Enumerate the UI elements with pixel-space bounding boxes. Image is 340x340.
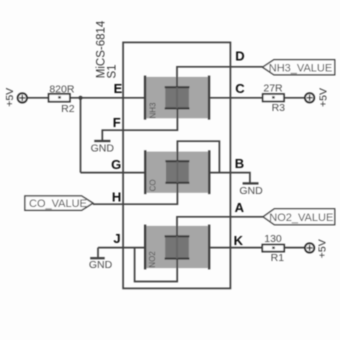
wire pin G to sensor CO left — [81, 172, 145, 174]
svg-text:NH3_VALUE: NH3_VALUE — [269, 62, 332, 74]
power +5V (right bottom) — [305, 239, 329, 258]
svg-text:K: K — [234, 233, 244, 248]
svg-text:H: H — [112, 190, 121, 205]
wire R3 to +5V right top — [284, 97, 305, 99]
resistor R1 130 — [262, 233, 284, 264]
wire NO2 heater bottom loop to pin J net — [135, 248, 178, 282]
ground GND (pin J) — [89, 258, 113, 271]
svg-text:NO2_VALUE: NO2_VALUE — [269, 212, 333, 224]
svg-text:R2: R2 — [61, 103, 75, 115]
svg-text:R3: R3 — [272, 102, 286, 114]
net flag CO_VALUE — [25, 196, 93, 210]
svg-text:CO: CO — [149, 179, 158, 191]
svg-text:B: B — [235, 156, 244, 171]
svg-text:GND: GND — [89, 259, 113, 271]
svg-text:+5V: +5V — [4, 88, 16, 107]
wire pin C: sensor NH3 right to R3 — [210, 97, 263, 99]
wire pin F: NH3 heater bottom to GND — [102, 108, 177, 140]
svg-text:A: A — [235, 200, 245, 215]
svg-text:D: D — [235, 49, 244, 64]
resistor R3 27R — [263, 83, 285, 115]
IC S1 body outline (MiCS-6814) — [123, 42, 230, 288]
resistor R2 820R — [49, 83, 75, 115]
svg-text:+5V: +5V — [317, 88, 329, 107]
sensor element NO2 (bottom) — [144, 225, 210, 270]
wire pin D: NH3 heater top to NH3_VALUE flag — [177, 67, 263, 87]
svg-text:GND: GND — [91, 142, 115, 154]
wire CO heater top to pin B net — [177, 141, 219, 172]
power +5V (left) — [4, 88, 27, 107]
ground GND (pin F) — [91, 141, 115, 154]
svg-text:J: J — [113, 231, 120, 246]
svg-text:NO2: NO2 — [148, 251, 157, 268]
junction node E rail — [78, 96, 82, 100]
wire pin J to sensor NO2 left and GND drop — [98, 248, 145, 257]
net flag NO2_VALUE — [263, 209, 335, 225]
svg-text:CO_VALUE: CO_VALUE — [29, 198, 87, 210]
svg-text:130: 130 — [264, 233, 282, 245]
wire pin A: NO2 heater top to NO2_VALUE flag — [177, 217, 263, 236]
net flag NH3_VALUE — [263, 60, 335, 75]
svg-text:GND: GND — [239, 185, 263, 197]
wire R2 to pin E / sensor NH3 left — [70, 97, 145, 99]
wire pin B: sensor CO right to GND right — [210, 173, 250, 183]
svg-text:F: F — [113, 115, 121, 130]
ground GND (pin B) — [239, 183, 263, 197]
svg-text:R1: R1 — [271, 252, 285, 264]
wire pin K: sensor NO2 right to R1 — [210, 247, 263, 249]
wire +5V rail down to pin G — [80, 98, 82, 173]
svg-text:S1: S1 — [107, 64, 119, 78]
svg-text:G: G — [111, 157, 121, 172]
svg-text:27R: 27R — [263, 83, 283, 95]
power +5V (right top) — [305, 88, 329, 107]
svg-text:C: C — [235, 81, 245, 96]
svg-text:NH3: NH3 — [148, 102, 157, 119]
wire pin H: CO heater bottom to CO_VALUE flag — [93, 183, 177, 204]
sensor element CO (middle) — [144, 150, 210, 194]
svg-text:E: E — [114, 81, 123, 96]
svg-text:820R: 820R — [49, 83, 75, 95]
sensor element NH3 (top) — [144, 76, 210, 120]
wire R1 to +5V right bottom — [284, 247, 305, 249]
wire +5V left to R2 — [27, 97, 49, 99]
svg-text:+5V: +5V — [317, 239, 329, 258]
